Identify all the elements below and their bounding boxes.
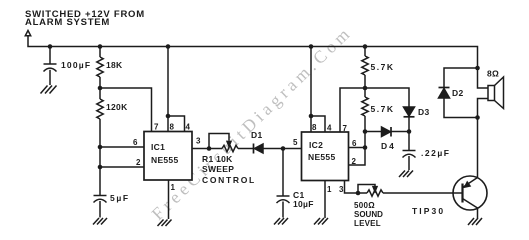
svg-text:D2: D2: [452, 88, 463, 98]
ground (100uF): [41, 86, 57, 94]
potentiometer R6 500 ohm arrow: [373, 187, 377, 192]
wire IC2 pin 2 loop: [349, 148, 366, 166]
junction pin3/500ohm: [356, 191, 361, 196]
junction IC2 loop: [309, 114, 314, 119]
wire IC2 pin 6: [349, 147, 366, 149]
svg-text:1: 1: [171, 183, 176, 192]
svg-text:5.7K: 5.7K: [371, 104, 395, 114]
wire IC1 pin 2: [100, 166, 144, 168]
wire D3 top from 5.7K junction: [365, 88, 409, 107]
ground (.22uF): [399, 171, 413, 178]
svg-text:8Ω: 8Ω: [487, 69, 499, 79]
svg-text:6: 6: [352, 139, 357, 148]
ground (Q1 emitter): [468, 218, 482, 225]
svg-text:D3: D3: [418, 107, 429, 117]
svg-text:ALARM SYSTEM: ALARM SYSTEM: [25, 17, 110, 28]
speaker SPK1 8 ohm: [488, 77, 504, 109]
junction 5.7K/pin7: [363, 86, 368, 91]
capacitor C1 10uF: [277, 149, 290, 218]
junction rail/18K: [98, 44, 103, 49]
svg-text:8: 8: [170, 123, 175, 132]
junction rail/5.7K: [363, 44, 368, 49]
diode D4: [382, 127, 410, 137]
transistor Q1 TIP30: [453, 176, 487, 218]
wire IC1 pin 6: [100, 146, 144, 148]
svg-text:LEVEL: LEVEL: [354, 219, 381, 228]
wire IC1 pin 8 from rail: [167, 47, 169, 132]
wire IC2 pin 8 from rail: [310, 47, 312, 133]
wire speaker bottom to Q1: [478, 99, 489, 178]
svg-text:4: 4: [327, 124, 332, 133]
junction 120K/pin6: [98, 145, 103, 150]
wire IC2 pin 7: [340, 88, 365, 132]
diode D2: [439, 68, 478, 118]
svg-text:7: 7: [343, 124, 348, 133]
svg-text:SWEEP: SWEEP: [202, 164, 234, 174]
resistor R2 18K: [97, 47, 103, 89]
potentiometer R1 10K element: [222, 145, 254, 151]
junction 5.7K/D4: [363, 129, 368, 134]
ground (IC2 pin 1): [314, 218, 328, 225]
wire IC2 pin 3 output: [345, 181, 368, 194]
resistor R5 5.7K lower: [362, 88, 368, 148]
capacitor C4 .22uF: [403, 132, 416, 171]
potentiometer R6 500 ohm wiper loop: [358, 185, 375, 194]
svg-text:2: 2: [352, 157, 357, 166]
svg-text:SOUND: SOUND: [354, 210, 383, 219]
junction IC1 pin3/R1: [207, 146, 212, 151]
wire IC1 pin 1 to ground: [168, 180, 170, 219]
wire IC1 pin 3 output: [192, 148, 222, 150]
wire IC2 pin 4 loop: [311, 116, 325, 132]
wire speaker top stub: [478, 68, 489, 88]
resistor R3 120K: [97, 88, 103, 196]
wire +12V rail: [28, 36, 478, 68]
ground (IC1 pin 1): [158, 220, 172, 227]
junction D2 bottom/Q1: [475, 115, 480, 120]
svg-text:CONTROL: CONTROL: [202, 175, 256, 185]
junction pin6/pin2: [363, 145, 368, 150]
svg-text:D4: D4: [381, 141, 396, 151]
op-amp U1 IC1 NE555 box: [144, 132, 192, 181]
svg-text:4: 4: [186, 123, 191, 132]
capacitor C2 100uF: [44, 47, 57, 86]
junction 18K/120K/pin7: [98, 86, 103, 91]
svg-text:1: 1: [327, 185, 332, 194]
wire IC2 pin 1 to ground: [324, 181, 326, 219]
potentiometer R1 10K wiper loop: [209, 134, 229, 149]
svg-text:IC2: IC2: [309, 140, 323, 150]
svg-text:D1: D1: [251, 130, 262, 140]
svg-text:5.7K: 5.7K: [371, 62, 395, 72]
junction rail/100uF: [48, 44, 53, 49]
wire 18K/120K junction to IC1 pin 7: [100, 88, 152, 132]
junction pin2/5uF: [98, 165, 103, 170]
svg-text:5: 5: [293, 138, 298, 147]
ground (5uF): [93, 218, 107, 225]
svg-text:8: 8: [312, 123, 317, 132]
svg-text:7: 7: [154, 123, 159, 132]
junction IC1 loop: [166, 114, 171, 119]
svg-text:500Ω: 500Ω: [354, 201, 375, 210]
junction rail/D2 top: [475, 66, 480, 71]
svg-text:3: 3: [196, 137, 201, 146]
svg-text:3: 3: [339, 185, 344, 194]
svg-text:.22µF: .22µF: [421, 148, 450, 158]
junction D1/C1/pin5: [281, 146, 286, 151]
svg-text:NE555: NE555: [308, 152, 336, 162]
junction D3/D4/.22uF: [407, 129, 412, 134]
svg-text:100µF: 100µF: [61, 60, 91, 70]
svg-text:IC1: IC1: [151, 142, 165, 152]
svg-text:2: 2: [136, 158, 141, 167]
svg-text:NE555: NE555: [151, 155, 179, 165]
resistor R4 5.7K upper: [362, 47, 368, 89]
junction rail/IC1 pin8: [166, 44, 171, 49]
svg-text:TIP30: TIP30: [412, 206, 445, 216]
svg-text:10µF: 10µF: [293, 199, 314, 209]
svg-text:6: 6: [133, 138, 138, 147]
svg-text:5µF: 5µF: [110, 193, 130, 203]
op-amp U2 IC2 NE555 box: [302, 132, 349, 181]
svg-text:R1 10K: R1 10K: [202, 154, 233, 164]
diode D3: [404, 107, 415, 132]
capacitor C3 5uF: [94, 196, 107, 218]
potentiometer R1 10K arrow: [227, 141, 231, 146]
node +12V input terminal: [25, 31, 30, 36]
wire D4 anode: [365, 131, 382, 133]
potentiometer R6 500 ohm element: [367, 190, 453, 196]
ground (C1): [274, 218, 288, 225]
junction rail/IC2 pin8: [309, 44, 314, 49]
diode D1: [254, 144, 302, 154]
wire IC1 pin 4 loop: [168, 116, 185, 132]
svg-text:18K: 18K: [106, 60, 123, 70]
svg-text:120K: 120K: [106, 102, 128, 112]
